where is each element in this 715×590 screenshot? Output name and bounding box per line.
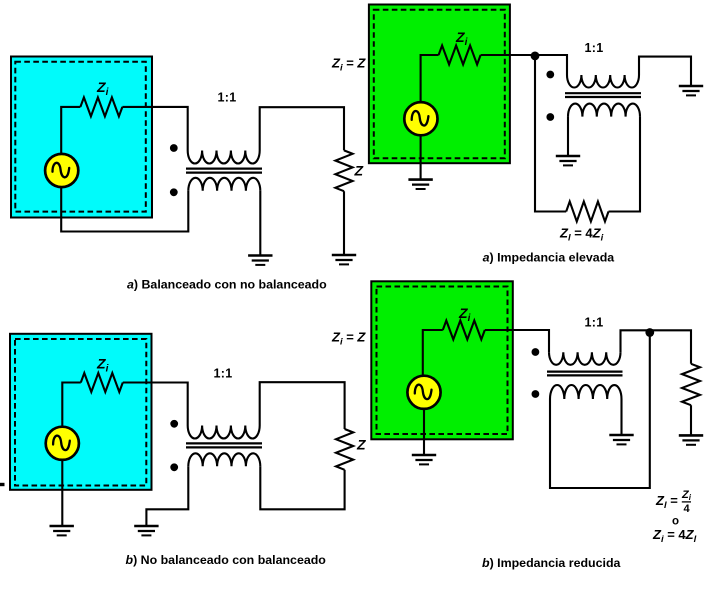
wire T1 secondary left to source return (61, 187, 188, 231)
svg-text:1:1: 1:1 (585, 41, 604, 55)
wire source V3 to ground (420, 136, 422, 180)
transformer T2 core (186, 443, 262, 447)
svg-text:1:1: 1:1 (585, 316, 604, 330)
ground top right (circuit a right) (679, 85, 703, 88)
transformer T1 secondary winding (188, 178, 260, 191)
phasing dot T4 secondary (532, 390, 540, 398)
box source region C (green) (369, 5, 510, 164)
ground under T4 secondary (609, 434, 633, 437)
box source region A (cyan) (11, 57, 152, 218)
ground under source V2 (50, 525, 74, 528)
svg-text:Z: Z (356, 436, 366, 452)
ground under load resistor (679, 434, 703, 437)
ground under T2 secondary (134, 525, 158, 528)
transformer T3 core (565, 93, 641, 97)
svg-text:1:1: 1:1 (218, 91, 237, 105)
dashed border box D (377, 287, 508, 435)
wire resistor Z to ground (343, 191, 345, 255)
svg-text:b) Impedancia reducida: b) Impedancia reducida (482, 556, 621, 570)
resistor Zi (circuit a right) (439, 46, 481, 65)
phasing dot T1 secondary (170, 188, 178, 196)
wire source V4 to resistor Zi (423, 330, 443, 378)
junction dot node A (531, 52, 540, 61)
phasing dot T2 primary (170, 420, 178, 428)
svg-text:a) Balanceado con no balancead: a) Balanceado con no balanceado (127, 277, 327, 291)
transformer T4 core (547, 372, 623, 376)
transformer T3 secondary winding (568, 104, 640, 117)
svg-text:a) Impedancia elevada: a) Impedancia elevada (483, 250, 615, 264)
phasing dot T4 primary (532, 348, 540, 356)
source V1 (circuit a) (45, 154, 78, 187)
wire resistor ZL to junction node A (535, 56, 566, 212)
wire Zi to transformer T3 primary left (481, 55, 567, 75)
wire resistor Z to T2 secondary right (260, 466, 344, 509)
wire T2 primary right to resistor Z (260, 382, 345, 429)
phasing dot T3 primary (546, 71, 554, 79)
wire Zi to transformer T4 primary left (485, 330, 549, 352)
wire source V3 to resistor Zi (421, 55, 439, 103)
ground under T3 secondary left (556, 155, 580, 158)
ground under T1 secondary (248, 254, 272, 257)
resistor load (circuit b right) (682, 364, 700, 405)
resistor Zi (circuit b) (81, 373, 123, 392)
transformer T1 core (186, 169, 262, 173)
wire T2 secondary left to ground (146, 466, 188, 526)
box source region B (cyan) (10, 334, 152, 490)
dashed border box A (15, 62, 146, 212)
wire source V4 to ground (423, 409, 425, 456)
resistor Z load (circuit a) (335, 150, 352, 191)
svg-text:4: 4 (684, 503, 691, 515)
ground under resistor Z (332, 254, 356, 257)
box source region D (green) (371, 281, 513, 439)
wire T1 secondary right to ground (259, 191, 261, 256)
wire source V2 to ground (61, 460, 63, 526)
wire resistor to ground (circuit b right) (690, 405, 692, 435)
wire T4 secondary right to ground (620, 399, 622, 435)
source V4 (circuit b right) (407, 376, 440, 409)
wire source V1 to resistor Zi (61, 107, 80, 154)
phasing dot T1 primary (170, 144, 178, 152)
ground under source V4 (412, 454, 436, 457)
dashed border box B (15, 339, 146, 486)
svg-text:b) No balanceado con balancead: b) No balanceado con balanceado (126, 553, 327, 567)
transformer T2 secondary winding (188, 453, 260, 466)
svg-text:1:1: 1:1 (214, 366, 233, 380)
transformer T2 primary winding (188, 426, 260, 439)
transformer T4 secondary winding (550, 385, 621, 399)
wire T3 primary right to ground (639, 57, 691, 86)
wire source V2 to resistor Zi (62, 383, 81, 428)
resistor Z load (circuit b) (336, 429, 353, 470)
transformer T1 primary winding (188, 151, 260, 164)
svg-text:Z: Z (354, 163, 364, 179)
wire Zi to transformer T2 primary left (123, 383, 188, 426)
wire T3 secondary left to ground (567, 117, 569, 156)
transformer T3 primary winding (567, 75, 639, 88)
resistor Zi (circuit b right) (443, 321, 485, 340)
wire T3 secondary right down to resistor ZL (609, 117, 641, 212)
page edge mark (0, 483, 5, 486)
source V3 (circuit a right) (404, 102, 437, 135)
ground under source V3 (408, 178, 432, 181)
resistor ZL (circuit a right) (566, 202, 608, 222)
transformer T4 primary winding (549, 352, 620, 365)
resistor Zi (circuit a) (80, 97, 122, 116)
phasing dot T3 secondary (546, 113, 554, 121)
junction dot node B (645, 328, 654, 337)
wire junction node B to T4 secondary left (550, 333, 650, 489)
dashed border box C (374, 10, 505, 159)
wire T1 primary right to resistor Z (260, 107, 344, 150)
phasing dot T2 secondary (170, 463, 178, 471)
wire Zi to transformer T1 primary left (122, 107, 187, 151)
svg-text:o: o (672, 516, 679, 528)
wire T4 primary right to resistor and junction (621, 330, 692, 364)
source V2 (circuit b) (46, 427, 79, 460)
